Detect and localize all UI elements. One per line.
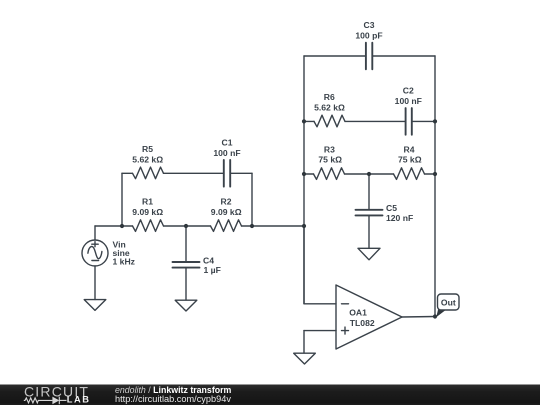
svg-text:R4: R4 bbox=[404, 144, 415, 154]
svg-text:R6: R6 bbox=[324, 92, 335, 102]
svg-text:R5: R5 bbox=[142, 144, 153, 154]
svg-text:OA1: OA1 bbox=[349, 308, 367, 318]
svg-text:C5: C5 bbox=[386, 203, 397, 213]
svg-text:75 kΩ: 75 kΩ bbox=[318, 154, 342, 164]
svg-text:http://circuitlab.com/cypb94v: http://circuitlab.com/cypb94v bbox=[115, 394, 231, 404]
svg-text:120 nF: 120 nF bbox=[386, 213, 413, 223]
svg-text:100 pF: 100 pF bbox=[355, 31, 382, 41]
svg-text:R3: R3 bbox=[324, 144, 335, 154]
svg-text:5.62 kΩ: 5.62 kΩ bbox=[132, 154, 163, 164]
svg-text:R1: R1 bbox=[142, 197, 153, 207]
svg-text:9.09 kΩ: 9.09 kΩ bbox=[132, 207, 163, 217]
svg-text:100 nF: 100 nF bbox=[395, 96, 422, 106]
svg-text:Out: Out bbox=[441, 297, 456, 307]
svg-text:100 nF: 100 nF bbox=[213, 148, 240, 158]
svg-text:C3: C3 bbox=[364, 20, 375, 30]
svg-text:9.09 kΩ: 9.09 kΩ bbox=[211, 207, 242, 217]
svg-text:1 kHz: 1 kHz bbox=[113, 257, 135, 267]
svg-text:LAB: LAB bbox=[67, 395, 91, 405]
svg-text:C2: C2 bbox=[403, 86, 414, 96]
svg-text:1 µF: 1 µF bbox=[204, 265, 221, 275]
svg-text:R2: R2 bbox=[221, 197, 232, 207]
svg-text:C1: C1 bbox=[222, 137, 233, 147]
svg-text:75 kΩ: 75 kΩ bbox=[398, 154, 422, 164]
svg-text:TL082: TL082 bbox=[350, 318, 375, 328]
svg-text:5.62 kΩ: 5.62 kΩ bbox=[314, 102, 345, 112]
